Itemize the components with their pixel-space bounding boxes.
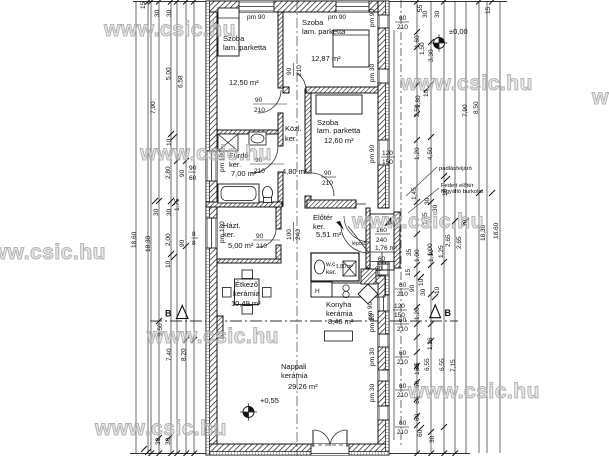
svg-text:15: 15 xyxy=(485,6,492,14)
left wall xyxy=(206,1,217,455)
svg-text:www.csic.hu: www.csic.hu xyxy=(146,325,279,348)
wardrobe top-left xyxy=(218,8,239,56)
bed Szoba 12,87 xyxy=(333,30,369,67)
kitchen stove diamond xyxy=(358,284,378,304)
svg-text:lam. parketta: lam. parketta xyxy=(317,126,361,135)
svg-text:60: 60 xyxy=(414,363,421,371)
svg-text:pm 30: pm 30 xyxy=(369,384,376,402)
svg-text:7,15: 7,15 xyxy=(450,359,457,372)
wall between Szoba 12,87 and Szoba 12,60, y87-93 xyxy=(283,87,289,93)
svg-text:60: 60 xyxy=(414,413,421,421)
windows right wall lower (Nappali) xyxy=(367,264,409,436)
svg-text:90: 90 xyxy=(189,165,197,172)
top wall xyxy=(206,1,389,12)
svg-text:6,58: 6,58 xyxy=(178,75,185,88)
chimney on left wall xyxy=(217,316,223,338)
svg-text:30: 30 xyxy=(429,435,436,443)
Házt bottom wall y259-263 xyxy=(217,259,281,263)
svg-text:7,90: 7,90 xyxy=(462,104,469,117)
svg-text:7,40: 7,40 xyxy=(166,348,173,361)
svg-text:H: H xyxy=(315,288,320,295)
bathroom: washer xyxy=(218,134,238,151)
svg-text:30: 30 xyxy=(420,288,427,296)
wall between Szoba 12,50 and corridor/Szoba 12,87 (vertical x 278-283) xyxy=(278,12,283,88)
svg-text:Közl.: Közl. xyxy=(285,124,302,133)
kitchen counter xyxy=(311,283,378,297)
svg-text:12,50 m²: 12,50 m² xyxy=(229,78,259,87)
svg-text:210: 210 xyxy=(397,291,408,298)
svg-text:210: 210 xyxy=(256,243,267,250)
svg-text:60: 60 xyxy=(399,350,407,357)
svg-text:kerámia: kerámia xyxy=(281,371,309,380)
svg-text:35: 35 xyxy=(406,248,413,256)
svg-text:6,55: 6,55 xyxy=(439,358,446,371)
door Szoba 12,60 xyxy=(311,170,336,196)
svg-text:210: 210 xyxy=(397,359,408,366)
svg-text:18,60: 18,60 xyxy=(131,231,138,248)
svg-text:www.csic.hu: www.csic.hu xyxy=(407,380,540,403)
svg-text:90: 90 xyxy=(255,97,263,104)
svg-text:2,65: 2,65 xyxy=(456,236,463,249)
svg-text:www.csic.hu: www.csic.hu xyxy=(103,18,236,41)
Házt right wall x276-281 xyxy=(276,207,281,229)
door Házt xyxy=(253,229,280,250)
svg-text:55: 55 xyxy=(417,4,424,12)
entrance direction arrows xyxy=(336,221,344,230)
svg-text:12,87 m²: 12,87 m² xyxy=(311,54,341,63)
svg-text:ker.: ker. xyxy=(285,134,297,143)
svg-text:B: B xyxy=(445,308,452,318)
svg-text:60: 60 xyxy=(378,256,386,263)
svg-text:1,50: 1,50 xyxy=(419,42,426,55)
svg-text:30: 30 xyxy=(153,208,160,216)
svg-text:±0,00: ±0,00 xyxy=(449,27,468,36)
svg-text:29,26 m²: 29,26 m² xyxy=(288,382,318,391)
svg-text:150: 150 xyxy=(382,159,393,166)
svg-text:lam. parketta: lam. parketta xyxy=(223,43,267,52)
bottom wall xyxy=(206,444,389,455)
svg-text:8: 8 xyxy=(192,231,196,238)
svg-text:Szoba: Szoba xyxy=(302,18,324,27)
bathtub xyxy=(218,184,259,203)
svg-text:8,20: 8,20 xyxy=(181,348,188,361)
svg-text:www.csic.hu: www.csic.hu xyxy=(400,72,533,95)
svg-text:pm 90: pm 90 xyxy=(369,145,376,163)
kitchen sink xyxy=(343,285,349,291)
svg-text:60: 60 xyxy=(399,282,407,289)
svg-text:90: 90 xyxy=(286,67,293,75)
svg-text:90: 90 xyxy=(324,170,332,177)
svg-text:3,30: 3,30 xyxy=(428,49,435,62)
right wall lower xyxy=(378,262,389,455)
svg-text:100: 100 xyxy=(286,229,293,240)
svg-text:8: 8 xyxy=(192,240,196,247)
svg-text:pm 90: pm 90 xyxy=(369,9,376,27)
sink xyxy=(249,132,266,145)
kitchen island xyxy=(325,331,353,341)
svg-text:30: 30 xyxy=(424,197,431,205)
survey marker ±0,00 outside xyxy=(434,38,445,49)
svg-text:120: 120 xyxy=(394,303,405,310)
svg-text:210: 210 xyxy=(397,392,408,399)
svg-text:7,90: 7,90 xyxy=(150,101,157,114)
Szoba 12,60 bottom wall y200-208 xyxy=(307,200,356,208)
svg-text:8,50: 8,50 xyxy=(473,101,480,114)
svg-text:18,30: 18,30 xyxy=(145,235,152,252)
svg-text:1,20: 1,20 xyxy=(414,147,421,160)
svg-text:210: 210 xyxy=(397,24,408,31)
svg-text:pm 30: pm 30 xyxy=(369,64,376,82)
windows left wall xyxy=(206,150,226,248)
svg-text:60: 60 xyxy=(399,317,407,324)
svg-text:Konyha: Konyha xyxy=(326,300,352,309)
svg-text:padlásfeljáró: padlásfeljáró xyxy=(439,166,472,172)
door corridor -> Szoba 12,87 xyxy=(286,63,306,88)
svg-text:15: 15 xyxy=(140,1,147,9)
svg-text:ker.: ker. xyxy=(223,230,235,239)
svg-text:lépcső: lépcső xyxy=(352,241,367,247)
svg-text:www.csic.hu: www.csic.hu xyxy=(139,142,272,165)
svg-text:pm 90: pm 90 xyxy=(328,14,346,21)
svg-text:6,55: 6,55 xyxy=(424,358,431,371)
svg-text:pm 90: pm 90 xyxy=(247,14,265,21)
dining table xyxy=(235,279,260,305)
right wall upper xyxy=(378,1,389,208)
svg-text:90: 90 xyxy=(179,239,186,247)
svg-text:2,65: 2,65 xyxy=(445,234,452,247)
svg-text:2,50: 2,50 xyxy=(414,104,421,117)
svg-text:5,51 m²: 5,51 m² xyxy=(316,230,342,239)
windows top wall xyxy=(239,1,369,21)
svg-text:1,45: 1,45 xyxy=(411,187,418,200)
svg-text:1,76 m²: 1,76 m² xyxy=(375,245,398,252)
door Szoba 12,50 -> corridor xyxy=(253,90,287,114)
svg-text:www.csic.hu: www.csic.hu xyxy=(94,417,227,440)
svg-text:10: 10 xyxy=(165,260,172,268)
svg-text:90: 90 xyxy=(409,284,416,292)
svg-text:30: 30 xyxy=(154,9,161,17)
svg-text:120: 120 xyxy=(382,150,393,157)
svg-text:210: 210 xyxy=(397,326,408,333)
svg-text:240: 240 xyxy=(295,229,302,240)
svg-text:2,80: 2,80 xyxy=(165,166,172,179)
svg-text:4,50: 4,50 xyxy=(427,147,434,160)
svg-text:Nappali: Nappali xyxy=(281,362,307,371)
terrace double door bottom xyxy=(311,430,349,455)
svg-text:1,00: 1,00 xyxy=(414,249,421,262)
wc room xyxy=(311,253,359,281)
wall below Szoba 12,50 (top of Fürdő), y130-134 xyxy=(217,130,278,134)
svg-text:90: 90 xyxy=(179,169,186,177)
svg-text:5,00 m²: 5,00 m² xyxy=(228,241,254,250)
svg-text:1,80 m²: 1,80 m² xyxy=(336,264,353,270)
svg-text:www.csic.hu: www.csic.hu xyxy=(0,241,106,264)
wardrobe Szoba 12,60 xyxy=(316,95,362,114)
svg-text:210: 210 xyxy=(254,107,265,114)
svg-text:10: 10 xyxy=(442,188,449,196)
svg-text:60: 60 xyxy=(399,383,407,390)
windows right wall upper xyxy=(369,9,395,166)
survey marker +0,55 living room xyxy=(243,407,254,418)
entrance door arc xyxy=(341,225,369,253)
svg-text:90: 90 xyxy=(256,233,264,240)
svg-text:18,60: 18,60 xyxy=(493,222,500,239)
svg-text:12,60 m²: 12,60 m² xyxy=(324,136,354,145)
svg-text:+0,55: +0,55 xyxy=(260,396,279,405)
svg-text:www: www xyxy=(591,86,609,109)
svg-text:Előtér: Előtér xyxy=(313,213,333,222)
svg-text:5,00: 5,00 xyxy=(166,67,173,80)
svg-text:15: 15 xyxy=(405,268,412,276)
svg-text:ker.: ker. xyxy=(326,269,337,276)
svg-text:60: 60 xyxy=(189,175,197,182)
svg-text:10,49 m²: 10,49 m² xyxy=(231,299,261,308)
svg-text:kerámia: kerámia xyxy=(233,289,261,298)
svg-text:30: 30 xyxy=(166,208,173,216)
Fürdő bottom wall y202-207 xyxy=(206,202,282,207)
svg-text:210: 210 xyxy=(322,180,333,187)
svg-text:www.csic.hu: www.csic.hu xyxy=(351,210,484,233)
svg-text:60: 60 xyxy=(399,420,407,427)
svg-text:lam. parketta: lam. parketta xyxy=(302,27,346,36)
svg-text:Házt.: Házt. xyxy=(223,221,241,230)
svg-text:30: 30 xyxy=(166,9,173,17)
svg-text:Étkező: Étkező xyxy=(235,280,258,289)
insulation ladder strips xyxy=(206,1,210,455)
svg-text:60: 60 xyxy=(399,15,407,22)
svg-text:pm 30: pm 30 xyxy=(369,314,376,332)
svg-text:8,46 m²: 8,46 m² xyxy=(328,317,354,326)
svg-text:1,25: 1,25 xyxy=(438,245,445,258)
svg-text:B: B xyxy=(165,309,172,319)
svg-text:1,00: 1,00 xyxy=(427,243,434,256)
steps hatch xyxy=(370,276,385,297)
svg-text:4,80 m²: 4,80 m² xyxy=(282,167,308,176)
svg-text:210: 210 xyxy=(397,429,408,436)
corridor right wall x305-311 xyxy=(305,89,311,173)
svg-text:30: 30 xyxy=(434,10,441,18)
svg-text:pm 30: pm 30 xyxy=(369,348,376,366)
svg-text:10: 10 xyxy=(434,286,441,294)
svg-text:7,00 m²: 7,00 m² xyxy=(231,169,257,178)
svg-text:2,00: 2,00 xyxy=(165,233,172,246)
toilet bathroom xyxy=(263,187,273,200)
door corridor -> Fürdő xyxy=(250,146,284,175)
svg-text:240: 240 xyxy=(376,237,387,244)
